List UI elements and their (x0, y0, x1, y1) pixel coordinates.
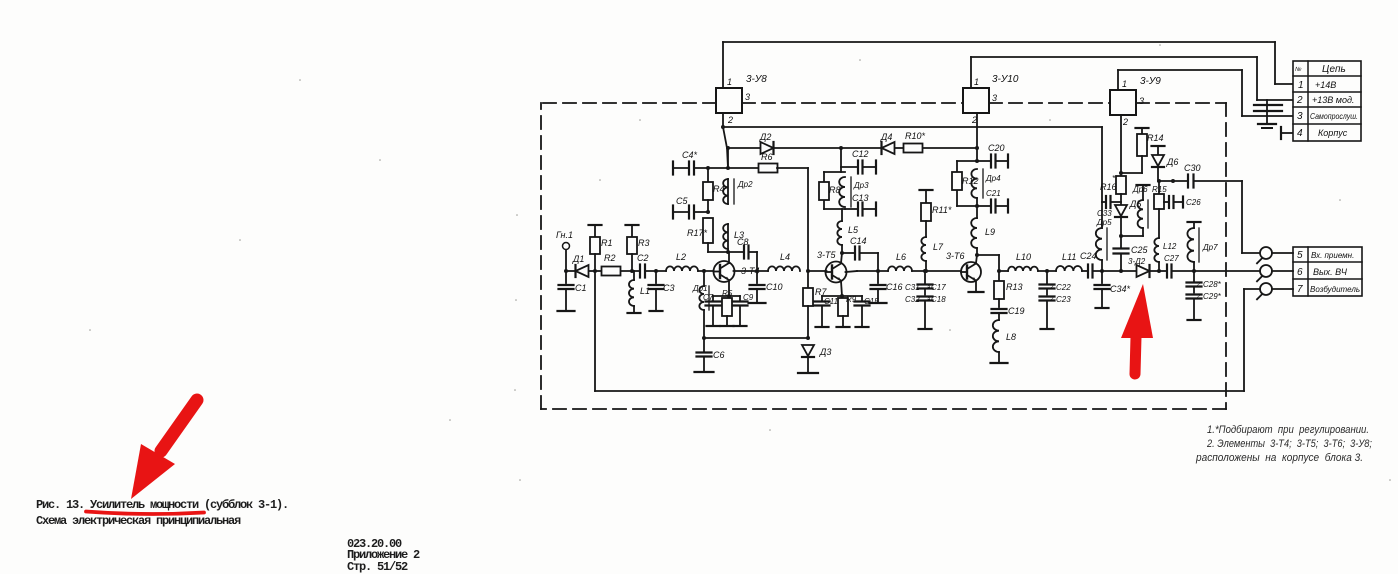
wire: emitter ground bus y338 (702, 336, 810, 340)
svg-text:Д6: Д6 (1166, 157, 1178, 167)
capacitor C13 (845, 193, 876, 216)
wire: rail node at C31 cluster (912, 269, 962, 273)
feedthrough capacitor on line 3 (1254, 110, 1282, 112)
wire: rail to port 6 (1194, 270, 1260, 272)
svg-text:C27: C27 (1164, 254, 1179, 263)
svg-text:C19: C19 (1008, 306, 1025, 316)
svg-text:3-Т6: 3-Т6 (946, 251, 965, 261)
diode Д3 (798, 345, 831, 373)
wire: Д6-R15-C30 net y181 (1157, 179, 1188, 183)
svg-text:Др6: Др6 (1132, 185, 1148, 194)
svg-text:2. Элементы 3-Т4; 3-Т5; 3-Т: 2. Элементы 3-Т4; 3-Т5; 3-Т6; 3-У8; (1206, 438, 1372, 450)
svg-text:7: 7 (1297, 284, 1303, 295)
wire: T5 collector node (840, 251, 844, 263)
svg-text:R5: R5 (722, 289, 733, 298)
capacitor C8 (728, 237, 757, 271)
capacitor C5 (676, 196, 694, 219)
svg-text:3-Т5: 3-Т5 (817, 250, 837, 260)
choke cluster R12 Др4 (957, 113, 979, 208)
inductor L6 (888, 252, 912, 271)
svg-text:2: 2 (1196, 294, 1201, 300)
port 5 Вх.приемн (1257, 247, 1293, 263)
capacitor C26 (1164, 196, 1201, 208)
wire: Д5 node to Др6 (1119, 228, 1143, 238)
svg-text:R2: R2 (604, 253, 616, 263)
dashed enclosure (субблок 3-1 boundary) (541, 103, 1226, 409)
svg-text:C21: C21 (986, 189, 1001, 198)
resistor R10* (904, 131, 926, 153)
wire: C30 to port 5 (1242, 181, 1260, 253)
diode Д2 (759, 132, 774, 154)
svg-text:C10: C10 (766, 282, 783, 292)
bottom rail (595, 390, 1244, 392)
svg-text:Др5: Др5 (1096, 218, 1112, 227)
svg-text:L9: L9 (985, 227, 995, 237)
svg-text:Корпус: Корпус (1318, 128, 1348, 138)
transistor Q3 3-Т6 (946, 251, 981, 282)
svg-text:R12: R12 (962, 176, 979, 186)
resistor R17* (687, 218, 728, 252)
red arrow annotation 1 (points to caption) (131, 444, 175, 499)
svg-text:Рис. 13. Усилитель мощности (с: Рис. 13. Усилитель мощности (субблок 3-1… (36, 497, 288, 512)
svg-text:1.*Подбирают при регулирован: 1.*Подбирают при регулировании. (1207, 424, 1369, 436)
svg-text:L7: L7 (933, 242, 944, 252)
svg-text:C9: C9 (743, 293, 754, 302)
wire: 3-У9 pin1 to Самопрослуш (row 3) (1118, 70, 1293, 116)
capacitor C25 (1114, 236, 1149, 273)
transistor Q2 3-Т5 (817, 250, 847, 283)
svg-text:2: 2 (727, 115, 733, 125)
choke Др3 (839, 177, 869, 207)
choke Др6 (1132, 185, 1150, 228)
wire: T5 emitter cluster (822, 281, 862, 298)
inductor L2 (666, 252, 698, 271)
svg-text:L10: L10 (1016, 252, 1031, 262)
svg-text:C17: C17 (931, 283, 946, 292)
inductor L10 (999, 252, 1056, 273)
resistor R2 (602, 253, 621, 276)
svg-text:3-У10: 3-У10 (992, 74, 1019, 85)
svg-text:3-Д2: 3-Д2 (1128, 257, 1146, 266)
resistor R15 (1152, 181, 1167, 238)
inductor L12 (1154, 238, 1177, 273)
svg-text:C33: C33 (1097, 209, 1112, 218)
diode 3-Д2 on rail (1121, 257, 1159, 277)
capacitor C9 (733, 293, 754, 326)
inductor L7 (921, 237, 944, 273)
svg-text:R13: R13 (1006, 282, 1023, 292)
svg-text:C22: C22 (1056, 283, 1071, 292)
ground of feedthrough capacitors (1258, 124, 1276, 128)
svg-text:R10*: R10* (905, 131, 926, 141)
svg-text:3-У8: 3-У8 (746, 74, 767, 85)
resistor R1 (589, 225, 613, 271)
capacitor C15 (855, 296, 880, 327)
svg-text:C32: C32 (905, 295, 920, 304)
svg-text:C14: C14 (850, 236, 867, 246)
svg-text:C23: C23 (1056, 295, 1071, 304)
capacitor C1 (558, 271, 587, 311)
capacitor C30 (1184, 163, 1242, 188)
capacitor C11 (815, 296, 839, 327)
svg-text:Д2: Д2 (759, 132, 771, 142)
choke Др5 (1096, 202, 1107, 271)
wire: 3-У8 pin1 to +14В (row 1) (723, 42, 1293, 88)
svg-text:5: 5 (1297, 250, 1303, 261)
capacitor C16 (870, 271, 903, 303)
resistor R13 (994, 271, 1023, 307)
svg-text:L11: L11 (1062, 252, 1076, 262)
svg-text:2: 2 (1296, 95, 1303, 106)
svg-text:C11: C11 (824, 297, 838, 306)
feedthrough capacitor on line 2 (1254, 100, 1282, 124)
svg-text:C16: C16 (886, 282, 903, 292)
capacitor C10 (749, 271, 783, 303)
wire: 3-У8 pin2 vertical feed (723, 113, 728, 168)
svg-text:+13В мод.: +13В мод. (1312, 95, 1354, 105)
inductor L3 (723, 224, 744, 249)
port 6 Вых.ВЧ (1257, 265, 1293, 281)
terminal Гн.1 (556, 230, 573, 271)
svg-text:C1: C1 (575, 283, 587, 293)
svg-text:1: 1 (727, 77, 732, 87)
svg-text:Др1: Др1 (692, 284, 708, 293)
capacitor C3 (649, 271, 675, 311)
svg-text:Схема электрическая принципиал: Схема электрическая принципиальная (36, 514, 241, 528)
svg-text:L8: L8 (1006, 332, 1016, 342)
resistor R9 (837, 295, 857, 327)
capacitor C7 (703, 293, 721, 326)
svg-text:R15: R15 (1152, 185, 1167, 194)
svg-text:R11*: R11* (932, 205, 952, 215)
svg-text:Др2: Др2 (737, 180, 753, 189)
capacitors C28* C29* (1187, 271, 1222, 320)
diode Д1 (572, 254, 589, 277)
choke Др2 (723, 179, 753, 204)
resistor R4 (703, 168, 725, 212)
svg-text:C20: C20 (988, 143, 1005, 153)
svg-text:Д4: Д4 (880, 132, 892, 142)
wire: 3-У9 pin2 chain (1119, 115, 1123, 176)
svg-text:1: 1 (1122, 79, 1127, 89)
resistor R11* (920, 190, 952, 237)
inductor L4 (768, 252, 800, 271)
wire: Д2-Д4 supply rail y148 (726, 146, 979, 150)
capacitor C24 (1080, 251, 1121, 278)
svg-text:R9: R9 (846, 295, 857, 304)
svg-text:расположены на корпусе блок: расположены на корпусе блока 3. (1195, 452, 1363, 464)
svg-text:C30: C30 (1184, 163, 1201, 173)
svg-text:№: № (1295, 66, 1302, 73)
svg-text:R4: R4 (713, 184, 725, 194)
capacitor C34* (1095, 271, 1131, 308)
svg-text:C6: C6 (713, 350, 725, 360)
svg-text:L5: L5 (848, 225, 859, 235)
svg-text:C13: C13 (852, 193, 869, 203)
svg-text:1: 1 (974, 77, 979, 87)
svg-text:C34*: C34* (1110, 284, 1131, 294)
svg-text:R3: R3 (638, 238, 650, 248)
svg-text:6: 6 (1297, 267, 1303, 278)
block U3 3-У9 (1110, 76, 1161, 127)
capacitor C12 (841, 149, 876, 174)
svg-text:3: 3 (745, 92, 750, 102)
wire: R8 cluster feed (824, 148, 845, 209)
table: bottom connector (rows 5-7) (1293, 247, 1362, 296)
block U1 3-У8 (716, 74, 767, 125)
svg-text:C2: C2 (637, 253, 649, 263)
diode Д5 (1115, 199, 1142, 236)
svg-text:Д1: Д1 (572, 254, 584, 264)
svg-text:3: 3 (1297, 111, 1303, 122)
svg-text:C29*: C29* (1203, 292, 1222, 301)
wire: R1 node down to bottom rail (594, 271, 596, 391)
resistor R14 (1121, 128, 1164, 173)
svg-text:C31: C31 (905, 283, 920, 292)
inductor L1 (628, 271, 651, 313)
svg-text:1: 1 (1298, 80, 1304, 91)
svg-text:L6: L6 (896, 252, 906, 262)
svg-text:R1: R1 (601, 238, 613, 248)
svg-text:+14В: +14В (1315, 80, 1336, 90)
svg-text:C25: C25 (1131, 245, 1149, 255)
wire: T5 base lead (808, 270, 827, 272)
wire: T4 emitter to RC cluster (713, 280, 740, 298)
svg-text:2: 2 (1049, 285, 1054, 291)
capacitors C22 C23 (1040, 271, 1072, 329)
diode Д6 (1152, 146, 1179, 181)
svg-text:C5: C5 (676, 196, 688, 206)
wire: T5 output node (846, 269, 889, 273)
resistor R12 (952, 172, 979, 190)
svg-text:C26: C26 (1186, 198, 1201, 207)
svg-text:R14: R14 (1147, 133, 1164, 143)
svg-text:L1: L1 (640, 286, 650, 296)
svg-text:L12: L12 (1163, 242, 1177, 251)
svg-text:Цепь: Цепь (1322, 64, 1346, 75)
svg-text:Др4: Др4 (985, 174, 1001, 183)
svg-text:4: 4 (1297, 128, 1303, 139)
port 7 Возбудитель (1244, 283, 1293, 391)
svg-text:C24: C24 (1080, 251, 1097, 261)
svg-text:R17*: R17* (687, 228, 708, 238)
main RF rail left segment (564, 269, 666, 273)
svg-text:Возбудитель: Возбудитель (1310, 285, 1360, 294)
svg-text:Стр. 51/52: Стр. 51/52 (347, 560, 408, 574)
svg-text:Д3: Д3 (819, 347, 831, 357)
capacitor C27 (1159, 254, 1196, 278)
inductor L5 (837, 209, 859, 253)
choke Др1 (692, 271, 709, 338)
svg-text:C28*: C28* (1203, 280, 1222, 289)
svg-text:C18: C18 (931, 295, 946, 304)
wire: T6 collector and L9 (975, 248, 979, 263)
svg-text:L4: L4 (780, 252, 790, 262)
wire: 3-У10 pin1 to +13В мод (row 2) (971, 57, 1293, 100)
resistor R5 (721, 289, 734, 326)
table: top connector (Цепь) (1293, 61, 1361, 141)
svg-text:R16: R16 (1100, 182, 1117, 192)
svg-text:C8: C8 (737, 237, 749, 247)
choke Др7 (1187, 222, 1218, 271)
svg-text:3-У9: 3-У9 (1140, 76, 1161, 87)
inductor L11 (1056, 252, 1088, 271)
resistor R16* (1100, 174, 1126, 205)
svg-text:Др3: Др3 (853, 181, 869, 190)
chassis terminal row 4 Корпус (1281, 127, 1293, 139)
wire: T6 collector jog to output (977, 255, 1001, 273)
capacitor C6 (695, 338, 725, 372)
red underline under Усилитель мощности (86, 512, 204, 515)
diode Д4 (880, 132, 895, 154)
capacitor C4* (682, 150, 698, 175)
transistor Q1 3-Т4 (714, 261, 760, 282)
wire: C5 net y212 (673, 206, 710, 219)
resistor R3 (626, 225, 650, 271)
svg-text:2: 2 (1196, 282, 1201, 288)
svg-text:Самопрослуш.: Самопрослуш. (1310, 112, 1358, 121)
inductor L9 (971, 206, 995, 248)
wire: long horizontal net y127 to Др5 branch (721, 125, 1102, 202)
svg-text:C3: C3 (663, 283, 675, 293)
svg-text:R6: R6 (761, 152, 773, 162)
svg-text:2: 2 (1049, 297, 1054, 303)
capacitor C33 (1096, 196, 1121, 227)
resistor R7 (803, 271, 827, 338)
svg-text:C15: C15 (864, 297, 879, 306)
capacitor C19 (992, 306, 1025, 320)
resistor R6 (728, 152, 808, 173)
wire: T4 output node (734, 269, 769, 273)
inductor L8 (991, 320, 1017, 363)
red arrow annotation 2 (points to 3-Д2) (1121, 284, 1153, 338)
svg-text:3: 3 (992, 93, 997, 103)
wire: T6 emitter ground (969, 281, 984, 292)
svg-text:Вх. приемн.: Вх. приемн. (1311, 251, 1354, 260)
capacitor C14 (842, 236, 878, 271)
svg-text:3: 3 (1139, 96, 1144, 106)
svg-text:C7: C7 (703, 293, 714, 302)
wire: T4 collector vertical (726, 148, 730, 263)
capacitor C2 (637, 253, 649, 278)
svg-text:Гн.1: Гн.1 (556, 230, 573, 240)
choke Др4 (971, 169, 1001, 206)
capacitors C31 C17 C32 C18 (905, 271, 946, 329)
svg-text:L2: L2 (676, 252, 686, 262)
svg-text:Др7: Др7 (1202, 243, 1218, 252)
svg-text:2: 2 (1122, 117, 1128, 127)
capacitor C20 (977, 143, 1008, 168)
svg-text:C4*: C4* (682, 150, 698, 160)
svg-text:C12: C12 (852, 149, 869, 159)
resistor R8 (819, 182, 841, 200)
block U2 3-У10 (963, 74, 1019, 125)
svg-text:Вых. ВЧ: Вых. ВЧ (1313, 267, 1348, 277)
wire: R6 node down to T5 base (806, 168, 810, 273)
capacitor C21 (977, 189, 1008, 213)
wire: L2 to 3-Т4 base (698, 269, 715, 273)
wire: C4-R6 net y168 (673, 162, 728, 175)
